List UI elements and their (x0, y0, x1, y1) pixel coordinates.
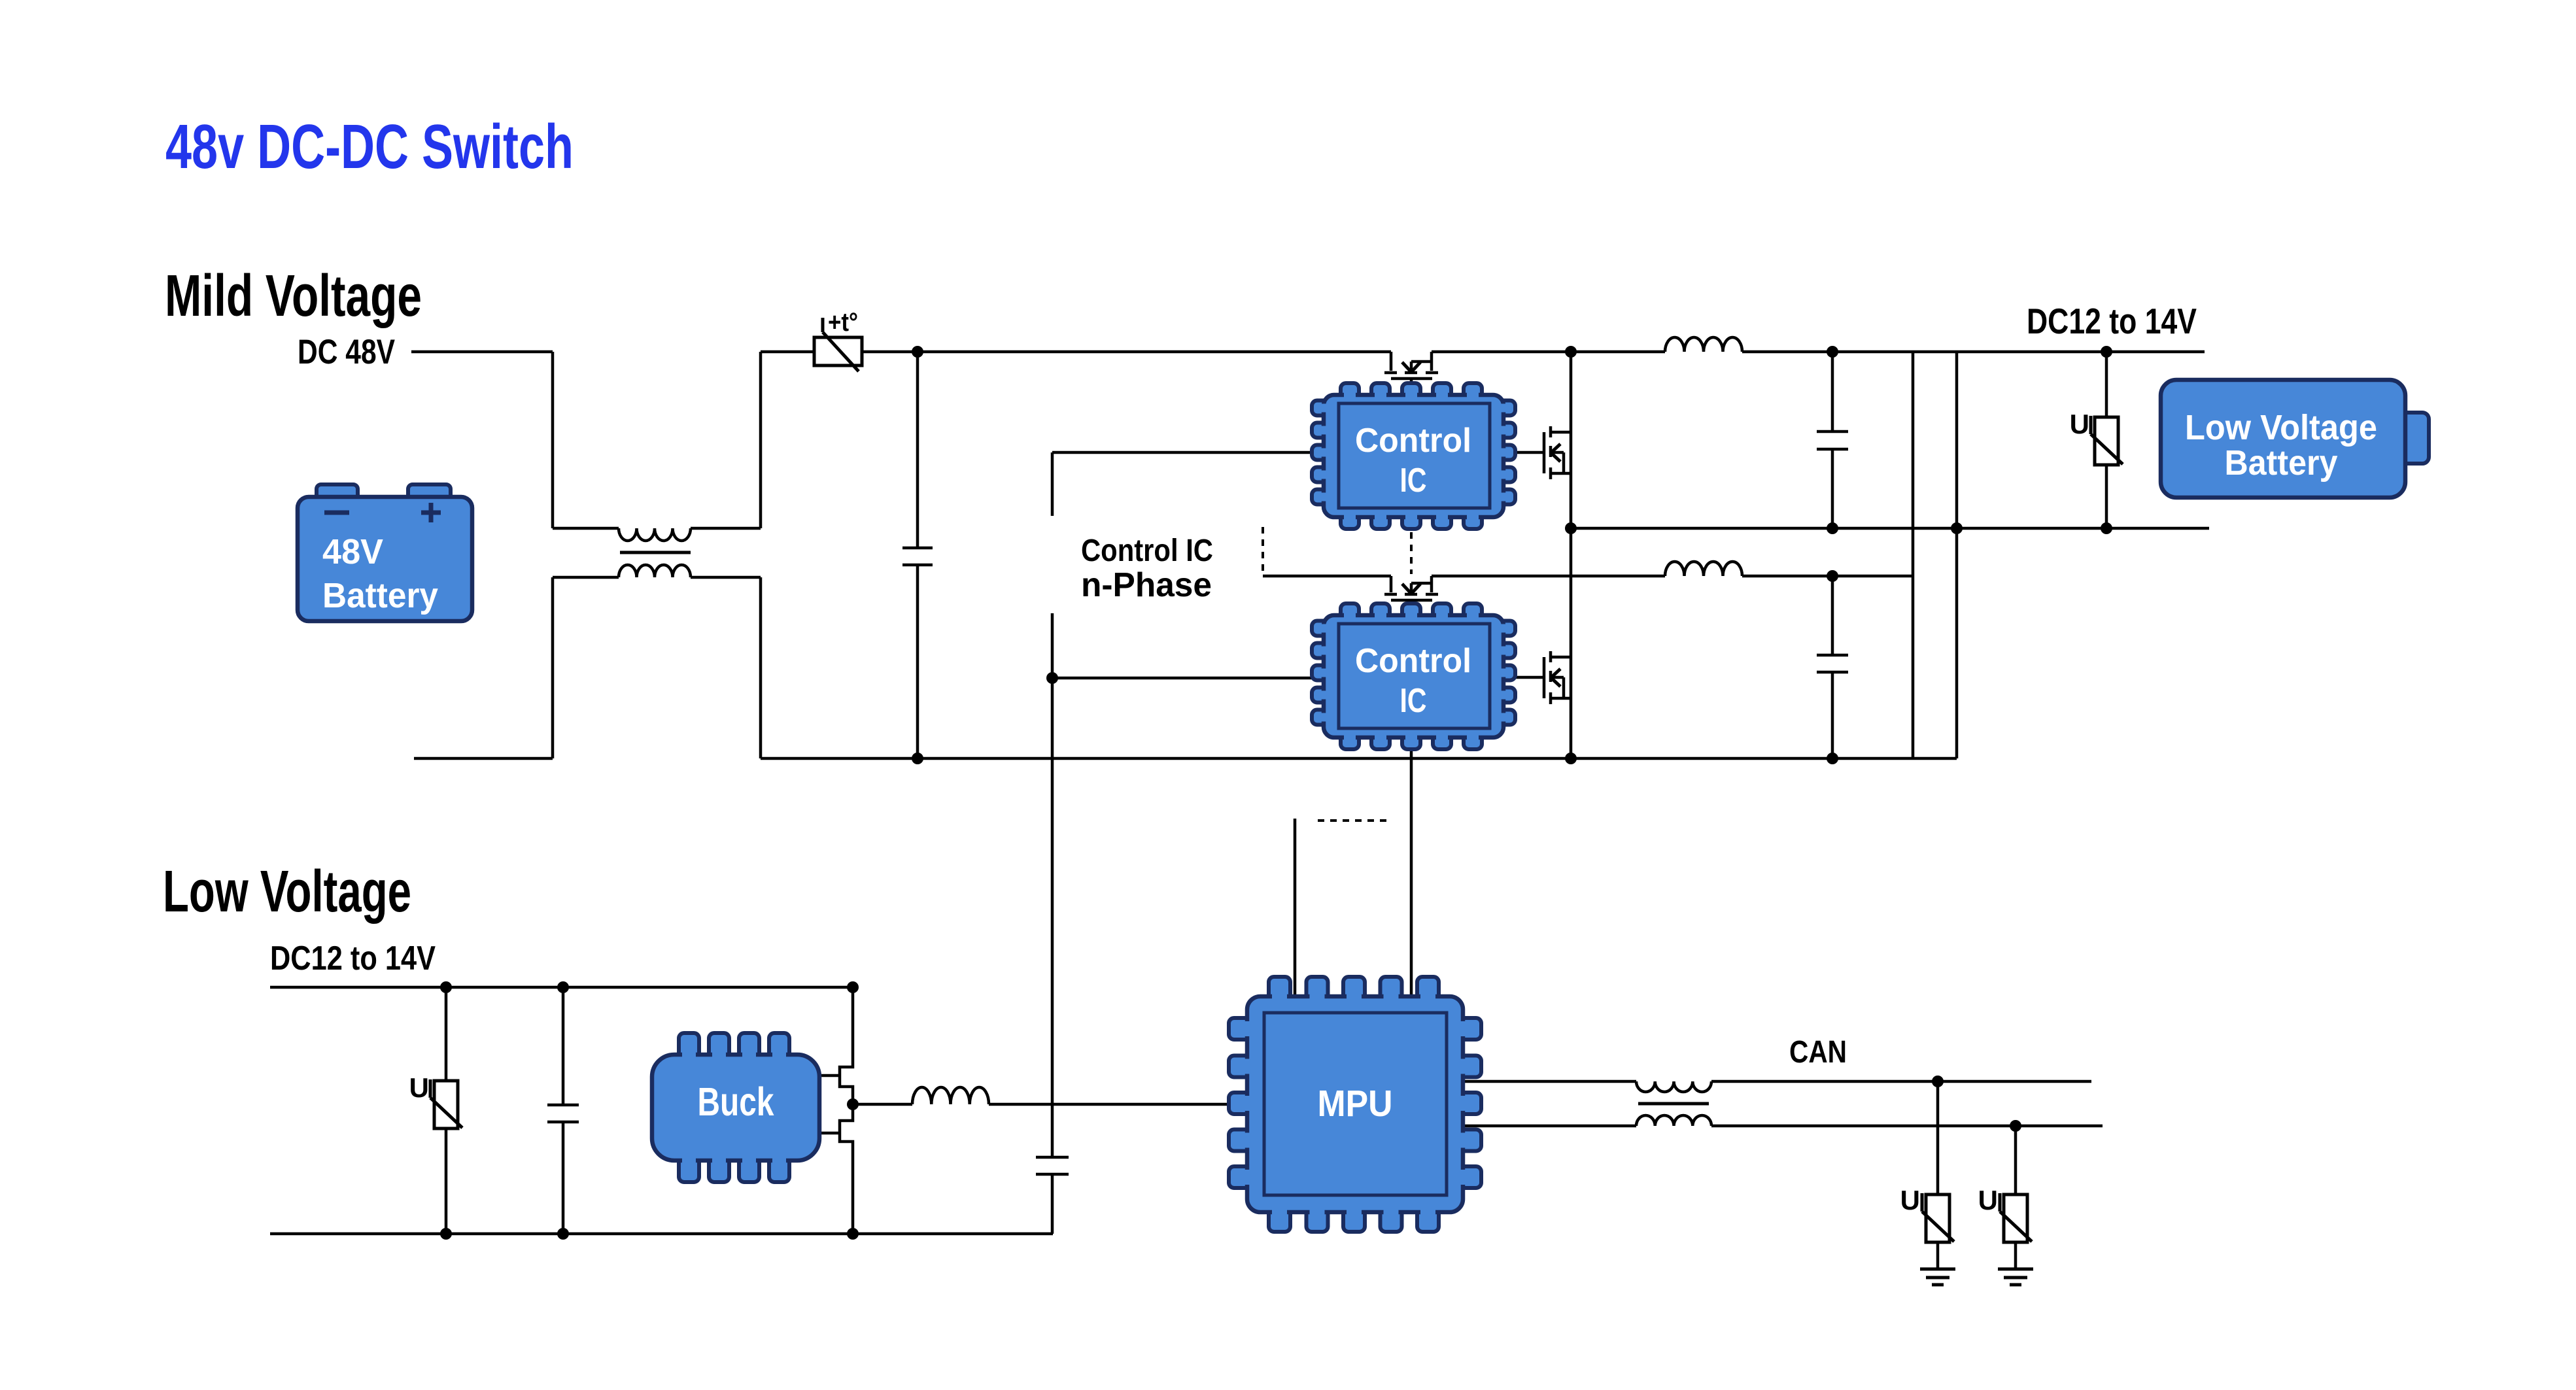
svg-text:Mild Voltage: Mild Voltage (165, 263, 422, 329)
svg-text:DC 48V: DC 48V (298, 333, 395, 371)
svg-text:Low Voltage: Low Voltage (163, 859, 411, 924)
svg-text:Control: Control (1355, 642, 1471, 680)
svg-text:n-Phase: n-Phase (1081, 566, 1212, 604)
svg-text:48V: 48V (322, 532, 383, 571)
svg-text:DC12 to 14V: DC12 to 14V (2027, 301, 2197, 341)
svg-text:DC12 to 14V: DC12 to 14V (270, 940, 436, 977)
svg-text:CAN: CAN (1789, 1035, 1847, 1070)
svg-text:U: U (409, 1072, 429, 1103)
svg-text:IC: IC (1400, 462, 1427, 500)
svg-text:U: U (1900, 1185, 1920, 1215)
svg-text:Buck: Buck (698, 1079, 774, 1124)
svg-text:MPU: MPU (1318, 1083, 1393, 1125)
svg-text:IC: IC (1400, 682, 1427, 720)
svg-text:Battery: Battery (322, 576, 438, 615)
svg-text:U: U (2070, 409, 2089, 439)
svg-text:Control IC: Control IC (1081, 534, 1213, 568)
svg-text:48v DC-DC Switch: 48v DC-DC Switch (165, 112, 574, 182)
svg-text:Battery: Battery (2225, 443, 2338, 483)
svg-text:+t°: +t° (828, 308, 858, 337)
svg-text:Low Voltage: Low Voltage (2185, 408, 2377, 447)
svg-text:Control: Control (1355, 422, 1471, 460)
svg-text:U: U (1978, 1185, 1998, 1215)
